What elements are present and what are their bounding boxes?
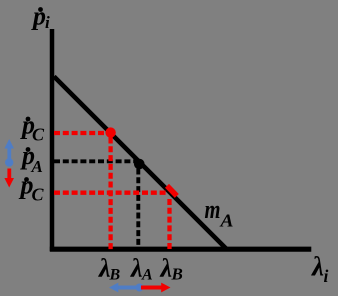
label p-dot i (y axis) — [31, 2, 50, 33]
red down arrow left of p_A — [4, 169, 14, 188]
svg-text:A: A — [219, 210, 233, 230]
svg-text:λ: λ — [311, 252, 324, 282]
black dashed horizontal at p_A — [54, 159, 135, 163]
red right arrow under lambda axis — [141, 283, 171, 293]
label p-dot C lower — [19, 171, 45, 205]
svg-text:B: B — [109, 267, 121, 284]
svg-text:λ: λ — [130, 254, 143, 283]
x-axis — [50, 247, 312, 252]
black dashed vertical at lambda_A — [136, 169, 140, 251]
red dash over line at lower crossing — [167, 186, 177, 196]
red dashed horizontal at upper p_C — [54, 131, 108, 135]
svg-text:λ: λ — [160, 254, 173, 283]
label lambda_B right — [160, 254, 183, 284]
svg-text:p: p — [31, 2, 46, 31]
black point on line at (lambda_A, p_A) — [134, 159, 145, 170]
red point on line at (lambda_B, p_C) — [105, 127, 115, 137]
label p-dot C upper — [20, 111, 45, 145]
red dashed horizontal at lower p_C — [54, 191, 167, 195]
blue left arrow under lambda axis — [109, 283, 144, 293]
red dashed vertical at left lambda_B — [108, 138, 112, 251]
red dashed vertical at right lambda_B — [167, 199, 171, 251]
svg-text:B: B — [171, 265, 183, 284]
label lambda_i (x axis) — [311, 252, 329, 287]
blue up arrow left of p_A — [4, 139, 14, 167]
svg-text:A: A — [141, 267, 153, 284]
budget line m_A — [54, 77, 227, 250]
svg-text:m: m — [205, 195, 221, 224]
svg-text:i: i — [324, 266, 329, 286]
label lambda_B left — [98, 254, 121, 284]
svg-text:C: C — [32, 185, 45, 205]
y-axis — [50, 29, 55, 251]
label lambda_A — [130, 254, 153, 284]
label m_A on budget line — [205, 195, 234, 231]
svg-text:i: i — [45, 13, 50, 32]
label p-dot A — [20, 141, 43, 176]
